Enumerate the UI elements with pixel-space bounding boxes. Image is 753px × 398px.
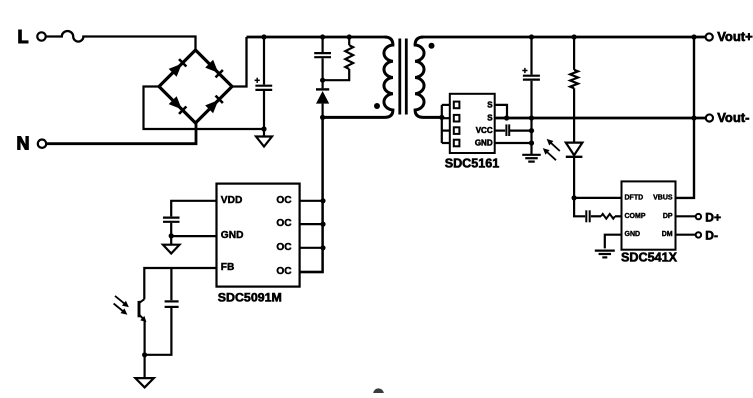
svg-text:L: L	[18, 27, 29, 47]
svg-text:S: S	[487, 114, 493, 123]
svg-text:OC: OC	[276, 242, 292, 253]
svg-text:S: S	[487, 100, 493, 109]
svg-text:D-: D-	[705, 228, 718, 242]
svg-text:VCC: VCC	[476, 126, 493, 135]
svg-text:VDD: VDD	[221, 195, 243, 206]
svg-text:OC: OC	[276, 195, 292, 206]
svg-text:OC: OC	[276, 266, 292, 277]
svg-text:SDC541X: SDC541X	[621, 251, 678, 265]
svg-text:DP: DP	[663, 213, 673, 220]
svg-text:DFTD: DFTD	[625, 194, 644, 201]
svg-text:Vout+: Vout+	[717, 29, 753, 44]
svg-text:SDC5091M: SDC5091M	[218, 290, 282, 304]
svg-text:DM: DM	[662, 231, 673, 238]
svg-text:FB: FB	[221, 262, 235, 273]
svg-text:VBUS: VBUS	[653, 194, 673, 201]
svg-text:COMP: COMP	[625, 213, 646, 220]
svg-text:Vout-: Vout-	[717, 110, 749, 125]
svg-text:D+: D+	[705, 210, 721, 224]
svg-text:SDC5161: SDC5161	[445, 157, 500, 171]
svg-text:GND: GND	[475, 139, 493, 148]
svg-text:GND: GND	[625, 231, 641, 238]
svg-text:OC: OC	[276, 218, 292, 229]
svg-text:GND: GND	[221, 230, 244, 241]
svg-text:N: N	[17, 134, 30, 154]
